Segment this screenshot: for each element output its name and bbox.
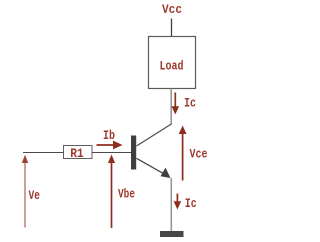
svg-text:Ib: Ib [103, 128, 115, 143]
svg-text:Vbe: Vbe [118, 187, 135, 202]
svg-text:Ic: Ic [184, 96, 196, 111]
svg-text:Ic: Ic [185, 196, 197, 211]
svg-text:Ve: Ve [29, 188, 41, 203]
svg-text:Vcc: Vcc [162, 2, 182, 17]
svg-text:Vce: Vce [190, 147, 208, 162]
svg-text:R1: R1 [70, 146, 84, 161]
svg-text:Load: Load [160, 59, 184, 74]
